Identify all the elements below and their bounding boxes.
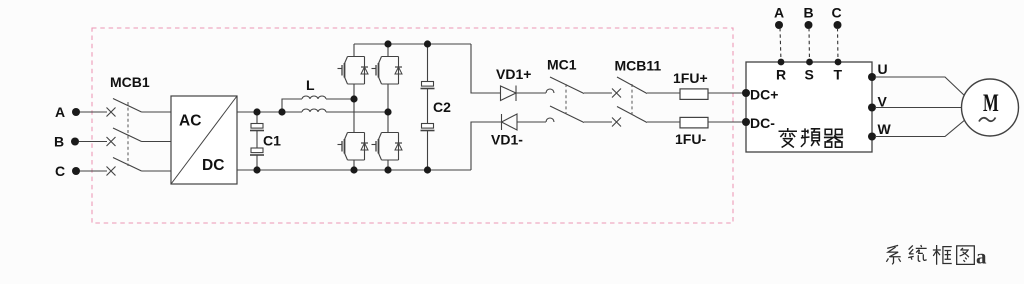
svg-text:DC-: DC-: [750, 115, 775, 131]
svg-text:C1: C1: [263, 133, 281, 149]
svg-text:W: W: [878, 121, 892, 137]
svg-text:R: R: [776, 67, 786, 83]
svg-text:1FU-: 1FU-: [675, 131, 706, 147]
svg-text:S: S: [805, 67, 814, 83]
svg-text:MCB1: MCB1: [110, 74, 150, 90]
svg-text:1FU+: 1FU+: [673, 70, 708, 86]
svg-text:T: T: [834, 67, 843, 83]
svg-text:U: U: [878, 61, 888, 77]
svg-text:A: A: [774, 5, 784, 21]
svg-text:C: C: [832, 5, 842, 21]
svg-text:AC: AC: [179, 113, 201, 130]
svg-text:DC+: DC+: [750, 87, 778, 103]
svg-text:MCB11: MCB11: [615, 58, 662, 74]
svg-text:B: B: [54, 134, 64, 150]
svg-text:VD1-: VD1-: [491, 132, 523, 148]
svg-text:a: a: [976, 245, 987, 269]
svg-text:L: L: [306, 77, 315, 93]
svg-text:VD1+: VD1+: [496, 66, 531, 82]
svg-text:DC: DC: [202, 157, 224, 174]
svg-text:A: A: [55, 104, 65, 120]
svg-text:M: M: [983, 89, 999, 117]
svg-text:B: B: [804, 5, 814, 21]
svg-text:MC1: MC1: [547, 57, 577, 73]
svg-text:C: C: [55, 163, 65, 179]
svg-text:C2: C2: [433, 99, 451, 115]
